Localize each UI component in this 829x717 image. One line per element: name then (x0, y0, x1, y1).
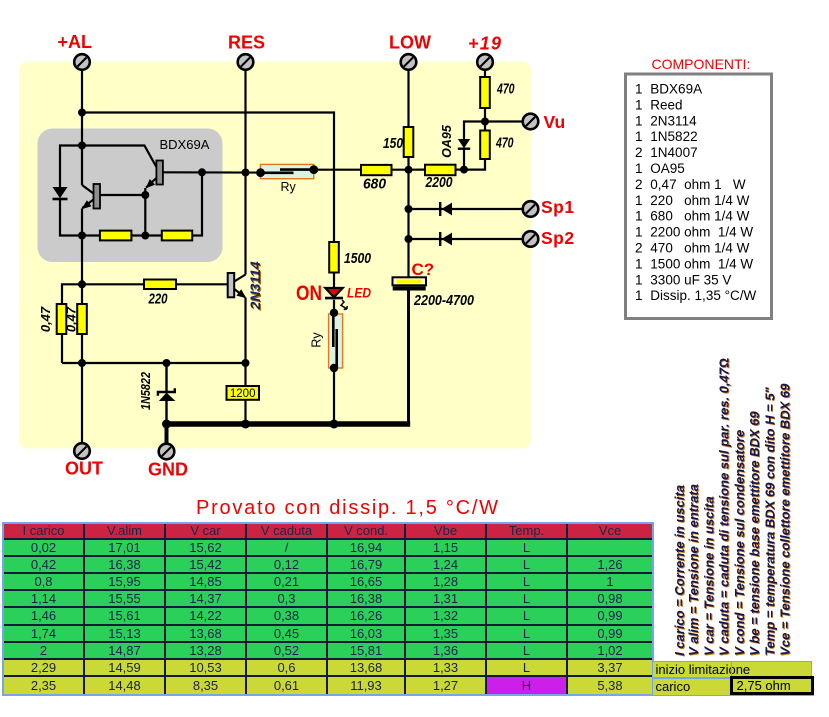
svg-text:680 ohm 1/4 W: 680 ohm 1/4 W (650, 209, 749, 224)
svg-text:Vce = Tensione collettore emet: Vce = Tensione collettore emettitore BDX… (778, 383, 793, 656)
svg-text:OUT: OUT (65, 459, 103, 479)
legend rotated line Temp (762, 386, 778, 656)
svg-text:Ry: Ry (281, 180, 297, 194)
wire T2 base out to reed (163, 171, 260, 174)
junction dots (78, 109, 489, 429)
svg-text:1: 1 (635, 113, 643, 128)
reed relay Ry horizontal (260, 164, 314, 178)
wire LOW vertical top (407, 70, 409, 127)
wire diode to bottom rail (60, 199, 100, 236)
svg-text:V caduta = caduta di tensione: V caduta = caduta di tensione sul par. r… (717, 358, 732, 656)
svg-text:470: 470 (495, 136, 513, 152)
svg-text:470: 470 (496, 82, 514, 98)
svg-text:1500 ohm 1/4 W: 1500 ohm 1/4 W (650, 256, 753, 271)
label Ry horizontal (281, 180, 297, 194)
svg-text:1: 1 (635, 97, 643, 112)
value box: 2,75 ohm (730, 676, 815, 696)
resistor internal R2 (162, 231, 192, 241)
legend rotated line I carico (672, 485, 688, 657)
label 1N5822 (139, 372, 153, 410)
legend rotated line V be (747, 410, 763, 656)
label 1500 (344, 251, 371, 267)
terminal OUT (74, 443, 90, 459)
svg-text:Sp2: Sp2 (541, 228, 575, 248)
diode D5 OA95 (458, 139, 470, 170)
wire +19 vertical (484, 70, 486, 77)
diode internal of BDX69A (53, 187, 68, 199)
wire capacitor to ground rail (407, 291, 410, 423)
label C? (412, 260, 435, 279)
terminal LOW (401, 54, 417, 70)
svg-text:1N5822: 1N5822 (650, 129, 697, 144)
diode D3 1N4007 (440, 202, 452, 216)
svg-text:2N3114: 2N3114 (247, 261, 263, 310)
label BDX69A (160, 137, 210, 152)
svg-text:Temp = temperatura BDX 69 con: Temp = temperatura BDX 69 con dito H = 5… (762, 386, 777, 655)
label RES (228, 33, 265, 53)
wire reed vertical to ground rail (333, 368, 335, 424)
svg-text:LED: LED (347, 285, 371, 301)
diode D4 1N4007 (440, 232, 452, 246)
transistor T1 of BDX69A (82, 184, 101, 209)
legend rotated line Vce (778, 383, 794, 657)
label +AL (58, 32, 93, 52)
wire 680 to LOW node (392, 169, 409, 171)
svg-text:1: 1 (635, 193, 643, 208)
svg-text:OA95: OA95 (440, 124, 454, 158)
svg-text:1: 1 (635, 129, 643, 144)
svg-text:1: 1 (635, 256, 643, 271)
wire 470 lower to bottom node (464, 159, 485, 170)
label LOW (389, 33, 431, 53)
svg-text:470 ohm 1/4 W: 470 ohm 1/4 W (650, 241, 749, 256)
svg-text:OA95: OA95 (650, 161, 685, 176)
wire collector node to diode column (60, 146, 82, 189)
wire bottom rail middle (131, 234, 161, 236)
svg-text:2200: 2200 (425, 175, 453, 191)
wire base 2N3114 from 220 (176, 283, 228, 285)
wire to OUT terminal (81, 363, 83, 443)
label 220 (148, 292, 168, 308)
label ON (296, 282, 322, 305)
label GND (148, 460, 188, 480)
transistor Q1 2N3114 (228, 273, 247, 298)
resistor 680 (361, 165, 392, 175)
wire +AL vertical (81, 70, 83, 363)
data table (2, 522, 654, 697)
svg-text:C?: C? (412, 260, 435, 279)
svg-text:1: 1 (635, 288, 643, 303)
svg-text:1: 1 (635, 272, 643, 287)
legend rotated line V cond (732, 430, 748, 657)
label 2N3114 (247, 261, 264, 311)
wire GND stub (165, 424, 169, 444)
wire T2 emitter down (144, 188, 146, 236)
legend rotated line V car (701, 496, 717, 656)
label 0,47 left (38, 306, 53, 332)
resistor 0,47 right (77, 304, 87, 334)
label 680 (363, 177, 386, 193)
svg-text:0,47: 0,47 (64, 306, 79, 332)
svg-text:1: 1 (635, 161, 643, 176)
resistor 470 lower (480, 131, 490, 160)
svg-text:1: 1 (635, 225, 643, 240)
wire 2N3114 emitter down (244, 298, 246, 387)
wire Vu node to terminal (485, 120, 523, 122)
wire node to 220 (82, 283, 144, 285)
diode D1 1N5822 (158, 363, 176, 424)
svg-text:1N4007: 1N4007 (650, 145, 697, 160)
wire reed to 680 (314, 169, 361, 171)
svg-text:Sp1: Sp1 (541, 197, 575, 217)
wire emitter rail y363 (62, 362, 246, 364)
label 150 (383, 136, 403, 152)
schematic background (19, 62, 531, 449)
svg-text:2200-4700: 2200-4700 (413, 293, 474, 309)
svg-text:I carico = Corrente in uscita: I carico = Corrente in uscita (672, 485, 687, 656)
wire RES vertical (244, 70, 246, 275)
svg-text:Dissip. 1,35 °C/W: Dissip. 1,35 °C/W (650, 288, 756, 303)
wire 0,47 left branch (62, 284, 82, 363)
capacitor C? (393, 277, 427, 290)
svg-text:1: 1 (635, 209, 643, 224)
wire bottom rail right and up to base pin (192, 172, 202, 235)
terminal +19 (477, 54, 493, 70)
svg-text:BDX69A: BDX69A (160, 137, 210, 152)
LED D2 (325, 288, 347, 310)
wire T1 base (100, 194, 145, 196)
resistor 220 (144, 280, 176, 290)
svg-text:ON: ON (296, 282, 322, 305)
terminal Vu (523, 114, 539, 130)
svg-text:0,47 ohm 1 W: 0,47 ohm 1 W (650, 177, 746, 192)
reed relay Ry vertical coil (329, 313, 343, 368)
legend rotated line V caduta (717, 358, 733, 657)
terminal Sp1 (523, 201, 539, 217)
label OUT (65, 459, 103, 479)
resistor 2200 (425, 165, 456, 176)
svg-text:Ry: Ry (310, 332, 324, 348)
ground rail thick wire (167, 421, 411, 427)
wire 1200 to ground rail (244, 400, 246, 425)
terminal RES (238, 54, 254, 70)
svg-text:220: 220 (148, 292, 168, 308)
svg-text:Vu: Vu (544, 112, 566, 132)
label Vu (544, 112, 566, 132)
transistor T2 of BDX69A (82, 146, 163, 189)
label Sp2 (541, 228, 575, 248)
svg-text:V be = tensione base emettitor: V be = tensione base emettitore BDX 69 (747, 410, 762, 655)
svg-text:2200 ohm 1/4 W: 2200 ohm 1/4 W (650, 225, 753, 240)
svg-text:2: 2 (635, 177, 643, 192)
svg-text:1N5822: 1N5822 (139, 372, 153, 410)
svg-text:150: 150 (383, 136, 403, 152)
wire 470 to Vu node (484, 108, 486, 131)
svg-text:2: 2 (635, 241, 643, 256)
svg-text:0,47: 0,47 (38, 306, 53, 332)
svg-text:Reed: Reed (650, 97, 682, 112)
legend rotated line V alim (686, 484, 702, 657)
label 470 lower (495, 136, 513, 152)
wire Sp1 line (409, 208, 523, 210)
svg-text:680: 680 (363, 177, 386, 193)
label 2200-4700 (413, 293, 474, 309)
svg-text:RES: RES (228, 33, 265, 53)
wire 1500 to LED (333, 273, 335, 289)
resistor 0,47 left (57, 304, 67, 334)
BDX69A internal module box (38, 129, 223, 263)
svg-text:+19: +19 (468, 34, 501, 54)
terminal +AL (74, 54, 90, 70)
svg-text:V cond = Tensione sul condensa: V cond = Tensione sul condensatore (732, 430, 747, 656)
terminal GND (159, 444, 175, 460)
svg-text:GND: GND (148, 460, 188, 480)
svg-text:1500: 1500 (344, 251, 371, 267)
resistor 1500 (329, 242, 339, 273)
parts list title COMPONENTI (652, 56, 751, 72)
svg-text:2N3114: 2N3114 (650, 113, 697, 128)
label 470 upper (496, 82, 514, 98)
svg-text:BDX69A: BDX69A (650, 82, 702, 97)
note cell: inizio limitazione (652, 661, 812, 679)
terminal Sp2 (523, 231, 539, 247)
note cell: carico (652, 678, 815, 696)
svg-text:3300 uF 35 V: 3300 uF 35 V (650, 272, 731, 287)
table title Provato con dissip. 1,5 C/W (196, 497, 500, 519)
resistor 1200 value box (227, 386, 260, 400)
wire Sp2 line (409, 238, 523, 240)
svg-text:220 ohm 1/4 W: 220 ohm 1/4 W (650, 193, 749, 208)
svg-text:V alim = Tensione in entrata: V alim = Tensione in entrata (686, 484, 701, 656)
label 2200 (425, 175, 453, 191)
resistor 470 upper (480, 77, 490, 108)
svg-text:LOW: LOW (389, 33, 431, 53)
wire LOW vertical middle (407, 157, 409, 277)
wire top rail to 1500 column (82, 113, 334, 243)
wire 2200 node (409, 169, 465, 171)
wire LED to reed vertical (333, 300, 335, 314)
label +19 (468, 34, 501, 54)
label OA95 (440, 124, 454, 158)
svg-text:1200: 1200 (230, 388, 256, 400)
label 0,47 right (64, 306, 79, 332)
svg-text:Provato con dissip. 1,5 °C/W: Provato con dissip. 1,5 °C/W (196, 497, 500, 519)
label LED (347, 285, 371, 301)
svg-text:V car = Tensione in uscita: V car = Tensione in uscita (701, 496, 716, 656)
wire OA95 branch (464, 122, 485, 140)
parts list lines (635, 82, 756, 304)
label Ry vertical (310, 332, 324, 348)
label Sp1 (541, 197, 575, 217)
svg-text:+AL: +AL (58, 32, 93, 52)
resistor internal R1 (100, 231, 131, 241)
svg-text:2: 2 (635, 145, 643, 160)
parts list box (626, 74, 772, 319)
resistor 150 (404, 127, 414, 157)
note cell divider (731, 661, 733, 679)
svg-text:1: 1 (635, 82, 643, 97)
svg-text:COMPONENTI:: COMPONENTI: (652, 56, 751, 72)
